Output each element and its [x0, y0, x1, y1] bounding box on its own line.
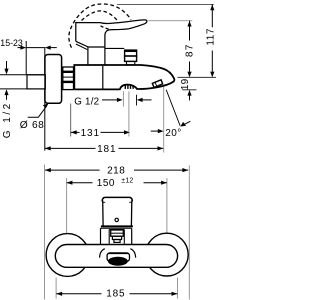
faucet body with spout beak	[74, 65, 174, 89]
diverter stub cap	[125, 50, 137, 56]
svg-text:68: 68	[32, 120, 44, 131]
svg-text:19: 19	[180, 78, 191, 90]
collar inner neck	[108, 230, 110, 244]
svg-text:20°: 20°	[165, 128, 181, 139]
svg-text:117: 117	[206, 28, 217, 46]
spout front left horn	[100, 249, 105, 258]
dimension 117 (vertical)	[210, 4, 214, 10]
dimension 87 (vertical)	[187, 21, 191, 27]
temperature stop block upper	[111, 230, 124, 236]
opposing arrow at hose nipple	[137, 98, 143, 102]
dimension 131	[70, 104, 72, 137]
body bar (stadium)	[55, 245, 177, 268]
svg-text:15-23: 15-23	[0, 38, 23, 48]
dimension 150 +/-12	[67, 181, 73, 185]
svg-text:181: 181	[97, 144, 116, 155]
temperature stop block lower	[112, 236, 121, 239]
extension line 185 right	[177, 278, 179, 299]
extension line 218 right	[188, 166, 190, 300]
pipe bottom extension line	[0, 88, 27, 90]
20 degree angled line	[166, 90, 180, 126]
extension line 150 right	[166, 178, 168, 234]
handle bottom skirt	[101, 225, 133, 227]
svg-text:131: 131	[81, 128, 100, 139]
right escutcheon circle	[145, 233, 188, 276]
body/spout parting line	[102, 66, 104, 90]
wall escutcheon (side)	[45, 55, 62, 104]
extension line spout bottom y=89.8	[182, 89, 196, 91]
svg-text:G 1/2: G 1/2	[74, 96, 99, 107]
shared extension line at spout level y=77.4	[178, 76, 217, 78]
pipe top extension line	[0, 74, 45, 76]
left G1/2 dimension arrows	[6, 61, 8, 71]
union nut (knurled)	[63, 67, 74, 90]
aerator (front, dark)	[108, 257, 128, 266]
dimension 181	[45, 146, 51, 150]
svg-text:185: 185	[106, 289, 125, 300]
extension line 150 left	[66, 178, 68, 234]
extension line top (117 ref, y=4.4)	[117, 3, 214, 5]
handle (front) top	[102, 197, 132, 201]
15-23 left extension line	[25, 41, 27, 75]
extension line 218 left	[44, 165, 46, 300]
spout face	[107, 253, 129, 262]
handle lever (solid)	[76, 20, 147, 47]
dashed raised lever outer curve	[69, 4, 131, 48]
dashed raised lever inner curve	[82, 11, 118, 21]
handle skirt diagonal	[76, 41, 105, 47]
left escutcheon circle	[46, 234, 89, 277]
dashed raised lever bottom tail	[101, 26, 110, 30]
dimension 218	[45, 168, 51, 172]
20 degree arrows	[151, 130, 158, 132]
svg-text:±12: ±12	[121, 178, 133, 185]
extension line 185 left	[55, 278, 57, 299]
svg-text:87: 87	[184, 43, 195, 57]
20 degree reference vertical line (also 181 extension)	[163, 87, 165, 153]
cartridge column under handle	[87, 47, 89, 65]
long left extension line (15-23 / 181)	[44, 47, 46, 150]
cartridge collar (front)	[100, 228, 102, 244]
handle sides	[102, 201, 104, 226]
spout front right horn	[130, 249, 135, 258]
dimension 185	[56, 292, 62, 296]
diverter stub mid	[125, 56, 137, 61]
svg-text:Ø: Ø	[20, 120, 28, 131]
hose nipple bump hatch	[124, 85, 126, 89]
handle skirt second line	[76, 44, 87, 50]
svg-text:150: 150	[97, 178, 115, 189]
diverter stub neck	[127, 61, 135, 64]
extension line handle tip (87 ref, y=20.7)	[148, 20, 192, 22]
svg-text:218: 218	[107, 165, 125, 176]
handle corner ticks	[103, 201, 105, 203]
aerator face on beak underside (tilted)	[152, 80, 162, 88]
body rear top edge line	[105, 47, 124, 49]
hose nipple extension lines	[122, 91, 124, 106]
svg-text:G 1/2: G 1/2	[2, 101, 13, 138]
wall pipe G1/2	[27, 75, 45, 89]
handle logo dot	[115, 218, 118, 221]
